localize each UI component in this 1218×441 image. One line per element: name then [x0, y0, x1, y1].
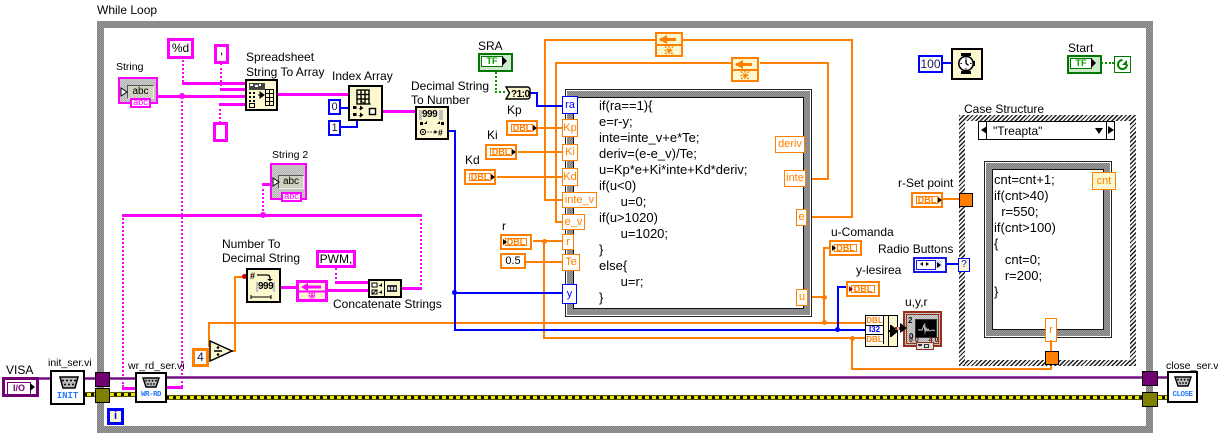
Spreadsheet String To Array node [246, 80, 277, 110]
wire orange u down to divide input [208, 322, 210, 346]
VISA label [6, 364, 33, 377]
wait ms node [951, 48, 983, 80]
coercion dot NTDS [242, 274, 247, 279]
constant 0.5 [500, 253, 526, 269]
Index Array node [349, 86, 382, 120]
wire inte vertical x=828 [827, 62, 829, 179]
terminal Kd [562, 168, 578, 186]
wire pink String indicator branch [158, 95, 245, 98]
Kp label [507, 104, 522, 117]
svg-text:?1:0: ?1:0 [511, 89, 531, 100]
wire error to close_ser [1155, 395, 1168, 400]
wire FB2 output left y=63 [556, 62, 731, 64]
wire blue DSTN output [448, 130, 456, 132]
wire blue y horizontal y=330 [454, 329, 865, 331]
wire pink PWM to concat [335, 281, 369, 284]
wire orange Ki [518, 151, 563, 153]
Kp control [506, 120, 538, 136]
wire orange r control to formula r [533, 240, 563, 242]
wire pink feedback to concat [328, 289, 369, 292]
waveform chart u,y,r [903, 311, 942, 347]
close_ser.vi node [1167, 371, 1198, 403]
wire orange r vertical 852 down [851, 338, 853, 369]
init_ser.vi label [48, 358, 92, 369]
wire orange u right to bundle row1 [824, 322, 866, 324]
divide node [209, 340, 235, 367]
tunnel error left [95, 388, 110, 403]
Concatenate Strings label [333, 298, 442, 311]
wire pink empty string horizontal [219, 103, 245, 106]
r-Set point label [898, 177, 953, 190]
wire pink %d horizontal [182, 82, 245, 85]
wire error tunnel to wr_rd [107, 392, 136, 397]
u-Comanda indicator [829, 240, 862, 256]
wire FB2 into e_v [555, 221, 563, 223]
wire orange u long horizontal to divide [208, 322, 825, 324]
tunnel r bottom of case [1045, 351, 1059, 365]
wire blue y vertical x=455 [454, 130, 456, 331]
wire pink NTDS to pink feedback [280, 286, 296, 289]
Number To Decimal String node [247, 269, 280, 302]
junction u at 824,322 [822, 320, 827, 325]
String indicator [118, 77, 158, 104]
u,y,r label [905, 296, 927, 309]
iteration terminal i [107, 408, 124, 425]
Spreadsheet String To Array label [246, 50, 324, 80]
tunnel error right [1142, 392, 1158, 407]
tunnel purple left [95, 372, 110, 387]
constant empty string [213, 122, 228, 142]
y-lesirea indicator [846, 281, 880, 297]
wire pink comma horizontal [220, 88, 245, 91]
tunnel r-Set point on case left [959, 193, 973, 207]
terminal deriv [775, 136, 805, 153]
u-Comanda label [831, 226, 894, 239]
SRA label [478, 40, 503, 53]
terminal ra [562, 96, 578, 114]
junction r at 544,241 [542, 239, 547, 244]
r-Set point control [911, 192, 943, 208]
terminal u [796, 289, 808, 306]
terminal r [562, 234, 574, 250]
wire blue 0 to index array [340, 107, 349, 109]
wire pink write string into wr_rd [122, 387, 136, 390]
wire purple wr_rd to right tunnel [166, 376, 1143, 379]
constant comma [214, 44, 229, 64]
y-lesirea label [856, 264, 901, 277]
wire orange Kp [538, 127, 563, 129]
constant 4 [192, 348, 209, 367]
Start label [1068, 42, 1093, 55]
terminal Ki [562, 144, 578, 161]
wire pink write string vertical x=123 [122, 215, 127, 387]
wire into NTDS input [234, 276, 247, 278]
wr_rd_ser.vi node [135, 372, 167, 403]
wire blue ?1:0 to ra [530, 92, 538, 94]
tunnel ? selector [958, 258, 970, 272]
wire blue up to y-lesirea [837, 286, 839, 330]
wire orange r horizontal y=338 [543, 337, 865, 339]
wire pink empty string vertical [219, 104, 224, 123]
wire orange u stub into u-Comanda [823, 247, 831, 249]
Kd control [464, 169, 496, 185]
wire green dotted Start to loop condition [1098, 62, 1114, 67]
wire orange Kd [497, 176, 563, 178]
Decimal String To Number label [411, 79, 489, 107]
wire inte out of formula [806, 178, 829, 180]
junction r at 852,338 [850, 336, 855, 341]
Start boolean control [1067, 55, 1102, 74]
boolean-to-01 node ?1:0 [505, 86, 531, 100]
svg-text:#: # [438, 128, 443, 138]
Number To Decimal String label [222, 237, 300, 265]
wire orange r vertical down at 544 [543, 241, 545, 338]
terminal r output [1045, 318, 1057, 342]
wire pink %d vertical [182, 57, 187, 85]
wire pink String 2 branch up [262, 184, 267, 215]
junction u at 824,297 [822, 295, 827, 300]
wire pink read string vertical x=182 [181, 96, 186, 387]
terminal e_v [562, 214, 585, 230]
r control [500, 234, 532, 250]
wire purple tunnel to wr_rd [107, 377, 136, 380]
constant 0 [328, 99, 341, 115]
feedback node FB3 (string) [296, 280, 328, 302]
wire e vertical x=852 [851, 39, 853, 218]
wire FB1 vertical down x=545 [544, 39, 546, 200]
wire purple init to tunnel [84, 377, 96, 380]
wire purple VISA to init [39, 377, 50, 380]
Kd label [465, 154, 480, 167]
terminal y [562, 284, 577, 304]
String 2 label [272, 150, 308, 161]
String 2 indicator [270, 163, 307, 200]
junction blue at 838,330 [835, 327, 840, 332]
terminal cnt [1092, 172, 1116, 190]
wire pink read string into wr_rd [165, 386, 183, 389]
wire pink spreadsheet to index array [277, 93, 349, 96]
wire u/4 divide output vertical x=235 [234, 277, 236, 351]
terminal inte [784, 170, 806, 187]
junction pink at 263,215 [260, 212, 266, 218]
SRA boolean control [478, 53, 513, 72]
terminal Kp [562, 119, 578, 137]
wire blue radio buttons to case ? [945, 263, 959, 265]
wire r-Set point to tunnel [942, 198, 961, 200]
wire pink write string horizontal y=215 [122, 214, 422, 217]
tunnel purple right [1142, 371, 1158, 386]
String indicator label [116, 62, 143, 73]
junction blue y at 455,293 [452, 290, 457, 295]
terminal Te [562, 254, 580, 271]
Radio Buttons control [913, 257, 947, 273]
wire pink PWM down [335, 268, 340, 283]
Case Structure label [964, 103, 1044, 116]
Ki control [485, 144, 517, 160]
bundle node [865, 315, 898, 347]
wire pink comma vertical [220, 63, 225, 90]
wire purple to close_ser [1155, 376, 1168, 379]
feedback node FB2 [731, 57, 759, 82]
wr_rd_ser.vi label [128, 361, 185, 372]
wire e out of formula [807, 216, 853, 218]
wire pink concat output vertical x=421 [420, 215, 425, 289]
constant 100 [918, 55, 943, 73]
loop condition terminal [1114, 56, 1131, 73]
wire pink index array to DSTN [381, 110, 416, 113]
formula node U3 (step generator) [984, 161, 1112, 338]
init_ser.vi node [50, 370, 85, 405]
case selector "Treapta" [978, 121, 1115, 140]
wire error wr_rd to right tunnel [166, 395, 1143, 400]
terminal inte_v [562, 192, 597, 208]
junction pink at 182,96 [179, 93, 185, 99]
svg-text:#: # [250, 271, 255, 281]
wire FB1 input right y=39 [683, 39, 853, 41]
terminal e [796, 209, 807, 226]
constant PWM, [316, 250, 356, 268]
wire 4 const to divide [203, 355, 211, 357]
Radio Buttons label [878, 243, 953, 256]
wire cluster bundle to chart [895, 327, 904, 330]
wire green dotted SRA down [495, 69, 500, 93]
Concatenate Strings node [369, 280, 401, 297]
while loop border [97, 21, 1153, 28]
feedback node FB1 [655, 32, 683, 57]
close_ser.vi label [1166, 361, 1218, 372]
formula node U2 (PID code) [565, 89, 812, 317]
wire r terminal to tunnel [1050, 340, 1052, 352]
wire blue 1 to index array [340, 126, 358, 128]
Ki label [487, 129, 498, 142]
wire pink concat output right [400, 287, 422, 290]
VISA resource control [2, 377, 39, 397]
wire orange Te from 0.5 [526, 261, 563, 263]
wire FB2 input right y=63 [760, 62, 829, 64]
wire orange u from formula output [807, 296, 825, 298]
Decimal String To Number node [416, 107, 448, 139]
r label [502, 220, 506, 233]
Index Array label [332, 70, 393, 83]
while loop label [97, 4, 157, 17]
wire orange r vertical up to case tunnel [1050, 361, 1052, 370]
constant %d [167, 38, 194, 59]
case structure border [959, 115, 1136, 366]
constant 1 [328, 120, 341, 136]
wire orange u vertical at 824 [823, 247, 825, 324]
wire feedback FB1 output left [545, 39, 655, 41]
wire error init to tunnel [84, 392, 96, 397]
wire orange r horizontal y=369 to case tunnel [851, 368, 1051, 370]
wire FB2 vertical down x=556 [555, 62, 557, 222]
wire blue 100 to wait [942, 62, 951, 64]
wire FB1 into inte_v [544, 199, 563, 201]
wire blue y into formula y [454, 292, 563, 294]
